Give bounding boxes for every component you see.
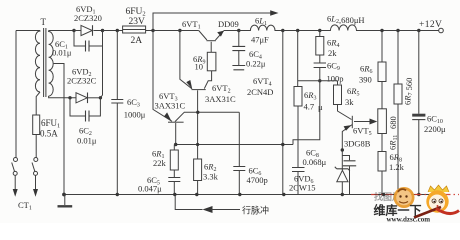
svg-text:390: 390	[359, 75, 372, 85]
wire node down to 6VT2 emitter	[180, 31, 192, 89]
wire rail	[283, 30, 325, 32]
svg-text:2k: 2k	[328, 48, 337, 58]
svg-text:行脉冲: 行脉冲	[242, 205, 269, 216]
svg-text:6C3: 6C3	[127, 97, 140, 109]
capacitor 6C8 0.068u	[292, 168, 305, 172]
capacitor 6C6 4700p	[233, 167, 245, 171]
svg-text:2CW15: 2CW15	[289, 183, 315, 193]
node 6C10	[417, 29, 420, 32]
wire rail to 6VT1	[153, 30, 199, 32]
svg-text:6R5: 6R5	[347, 86, 359, 98]
watermark red dashdot line	[371, 194, 459, 196]
resistor 6R9 10	[207, 52, 216, 71]
node 6R7	[396, 29, 399, 32]
node divider	[318, 79, 321, 82]
inductor 6L1	[239, 25, 282, 30]
switch 1	[14, 158, 18, 162]
terminal +12V	[439, 28, 444, 33]
transistor 6VT2 3AX31C	[192, 89, 206, 91]
node diode 6VD2 cathode	[99, 96, 102, 99]
svg-text:2CZ32C: 2CZ32C	[67, 76, 97, 86]
node rail center tap	[62, 193, 66, 197]
resistor 6R6 390	[381, 31, 383, 63]
node bus 6VT2 base	[196, 143, 199, 146]
transformer T secondary winding	[49, 31, 54, 97]
wire divider node down to feedback bus	[293, 81, 320, 145]
svg-text:6VT1: 6VT1	[182, 19, 201, 31]
capacitor 47uF	[238, 31, 240, 66]
node 6VT5 emitter junction	[341, 148, 344, 151]
watermark paintbrush	[414, 207, 441, 218]
resistor 6R2 3.3k	[194, 159, 202, 181]
switch 2	[34, 158, 38, 162]
svg-text:22k: 22k	[153, 158, 167, 168]
svg-text:0.047μ: 0.047μ	[138, 184, 162, 194]
node fuse output	[151, 29, 154, 32]
wire rail to fuse 6FU2	[103, 30, 123, 32]
transformer core	[44, 28, 46, 97]
svg-text:6L1: 6L1	[255, 16, 267, 28]
svg-text:100p: 100p	[327, 74, 344, 84]
svg-text:3AX31C: 3AX31C	[205, 94, 236, 104]
resistor 6R8 1.2k	[381, 134, 383, 152]
bottom ground rail	[64, 194, 441, 196]
resistor 6R4 2k	[319, 31, 321, 37]
svg-text:0.22μ: 0.22μ	[246, 59, 266, 69]
node 6VT2 base junction	[196, 111, 199, 114]
svg-text:4.7: 4.7	[304, 102, 315, 112]
node 6R4 tap	[318, 29, 321, 32]
wire 6VD2 cathode up to rail	[100, 31, 102, 98]
diode 6VD1 2CZ320	[74, 30, 103, 32]
wire long drop x283 to bottom rail	[282, 31, 284, 195]
svg-text:23V: 23V	[129, 17, 146, 27]
svg-text:2CN4D: 2CN4D	[247, 87, 273, 97]
svg-text:www.dzsc.com: www.dzsc.com	[387, 216, 431, 224]
svg-text:10: 10	[195, 62, 204, 72]
resistor 6R1 22k	[174, 145, 175, 151]
transistor 6VT1 DD09	[199, 31, 224, 41]
svg-text:2200μ: 2200μ	[424, 124, 446, 134]
wire 47u node down through bus to 6C6	[238, 112, 240, 166]
capacitor 6C10 2200u	[418, 31, 420, 195]
node rail 6C5	[173, 193, 176, 196]
wire 6R9 bottom to 6VT2 collector	[204, 71, 211, 89]
capacitor 6C3 1000u	[116, 31, 118, 195]
svg-text:6R3: 6R3	[304, 90, 316, 102]
capacitor beside zener	[342, 156, 349, 195]
wire left drop to switch 1	[15, 31, 17, 158]
svg-text:3k: 3k	[345, 97, 354, 107]
node rail x283	[282, 193, 285, 196]
node output of 6L1	[281, 29, 284, 32]
transistor 6VT3 3AX31C	[168, 121, 184, 123]
svg-text:3.3k: 3.3k	[203, 172, 219, 182]
svg-text:6R7 560: 6R7 560	[403, 78, 415, 105]
wire collector bus to 47u node	[184, 111, 239, 113]
svg-text:6R6: 6R6	[360, 64, 372, 76]
wire down to 6R3	[297, 31, 299, 87]
svg-text:1.2k: 1.2k	[389, 162, 405, 172]
capacitor 6C1 parallel loop	[74, 31, 103, 47]
capacitor 6C2 parallel loop	[70, 98, 100, 116]
node 6VT1 branch	[178, 29, 181, 32]
svg-text:6VT4: 6VT4	[253, 76, 272, 88]
resistor 6R5 3k	[337, 81, 339, 85]
svg-text:μ: μ	[318, 102, 323, 112]
zener 6VD6 2CW15	[341, 151, 343, 171]
svg-text:3AX31C: 3AX31C	[155, 101, 186, 111]
svg-text:680: 680	[388, 116, 398, 129]
node rectifier top right	[101, 29, 104, 32]
node rectifier top left	[72, 29, 75, 32]
wire 6VT1 emitter to rail right	[224, 30, 239, 32]
wire 6R3 bottom through to 6C8	[297, 106, 299, 167]
capacitor 6C5 0.047u	[173, 170, 175, 195]
svg-text:6VT2: 6VT2	[212, 83, 231, 95]
node rail 6C3	[116, 193, 119, 196]
resistor 6R3 4.7	[294, 87, 302, 107]
svg-text:0.01μ: 0.01μ	[77, 136, 97, 146]
wiper arrow of 6R11 to 6VT5 base	[354, 121, 371, 123]
svg-text:2CZ320: 2CZ320	[74, 13, 102, 23]
node 6R6	[380, 29, 383, 32]
svg-text:0.01μ: 0.01μ	[52, 48, 72, 58]
svg-text:6L2,680μH: 6L2,680μH	[327, 14, 365, 26]
wire fuse node down to 6VT3 emitter	[153, 31, 172, 122]
wire secondary bottom to diode 6VD2	[49, 96, 76, 98]
node 6C3 tap	[116, 29, 119, 32]
svg-text:6R11: 6R11	[388, 135, 400, 150]
watermark mascot small badge	[394, 187, 415, 208]
node rail 6R8	[382, 193, 385, 196]
transistor 6VT5 3DG8B	[338, 105, 352, 120]
node rail 6R2	[195, 193, 198, 196]
svg-text:0.068μ: 0.068μ	[303, 157, 327, 167]
wire 23V bypass arrow	[153, 13, 272, 31]
svg-text:3DG8B: 3DG8B	[344, 139, 371, 149]
node rail 6C6	[238, 193, 241, 196]
wire top-left from left drop to transformer primary	[16, 30, 40, 32]
node bus x283	[281, 143, 284, 146]
svg-text:2A: 2A	[131, 36, 143, 46]
svg-text:+12V: +12V	[419, 20, 442, 30]
node rail 6C10	[417, 193, 420, 196]
svg-text:DD09: DD09	[218, 19, 239, 29]
fuse 6FU2 23V 2A	[123, 26, 146, 33]
svg-text:6VT5: 6VT5	[353, 126, 372, 138]
wire feedback bus	[176, 144, 293, 146]
node bus left end	[174, 143, 177, 146]
svg-text:6C9: 6C9	[327, 61, 340, 73]
svg-text:0.5A: 0.5A	[40, 129, 58, 139]
svg-text:4700p: 4700p	[247, 175, 268, 185]
node 6R3 tap	[296, 29, 299, 32]
svg-text:T: T	[41, 17, 47, 27]
transformer T primary winding	[35, 31, 40, 93]
svg-text:1000μ: 1000μ	[124, 110, 146, 120]
line pulse input wire	[175, 195, 202, 210]
svg-text:6FU2: 6FU2	[126, 7, 146, 18]
capacitor 6C9 100p	[319, 55, 321, 81]
fuse 6FU1 0.5A	[33, 115, 40, 135]
wire divider node left to 6R3 top / right to 6R5	[298, 80, 338, 82]
watermark mascot big with crown	[428, 185, 449, 192]
svg-text:CT1: CT1	[18, 200, 32, 212]
wire 6R7 bottom to rail	[397, 104, 399, 195]
node rail zener cap	[341, 193, 344, 196]
potentiometer 6R11 680	[381, 82, 383, 109]
inductor 6L2 680uH	[320, 25, 382, 31]
resistor 6R7 560	[397, 31, 399, 85]
wire secondary top to rectifier rail	[49, 30, 74, 32]
wire secondary center tap	[54, 64, 64, 195]
node DD09 cap tap	[237, 29, 240, 32]
ground symbol	[64, 195, 66, 206]
diode 6VD2 2CZ32C	[68, 96, 71, 99]
svg-text:47μF: 47μF	[251, 35, 269, 45]
wire rail to +12V	[357, 30, 439, 32]
